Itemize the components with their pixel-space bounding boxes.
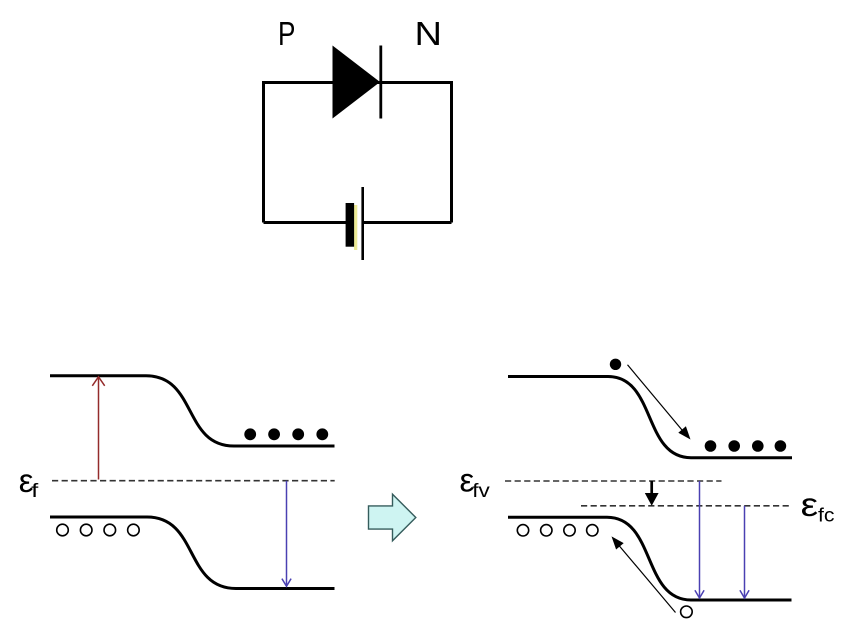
svg-text:fv: fv [472,481,490,502]
svg-text:P: P [278,15,295,52]
svg-text:f: f [31,481,39,502]
svg-text:N: N [415,15,443,52]
svg-text:fc: fc [818,505,835,526]
svg-text:ε: ε [801,486,819,523]
